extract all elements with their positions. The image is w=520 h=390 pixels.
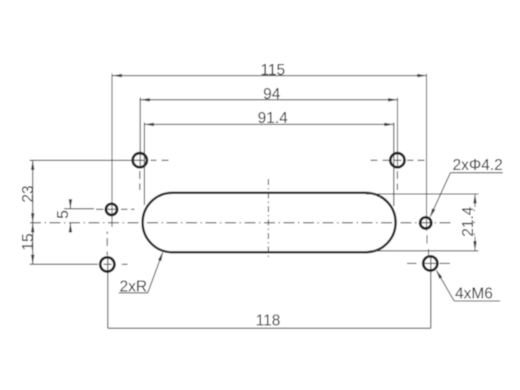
hole M6 bottom-right bbox=[423, 256, 437, 270]
svg-text:91.4: 91.4 bbox=[258, 110, 289, 127]
hole M6 bottom-left centerline dashes bbox=[104, 263, 112, 265]
svg-text:21.4: 21.4 bbox=[460, 206, 477, 237]
hole 4.2 right bbox=[420, 217, 431, 228]
svg-text:23: 23 bbox=[20, 185, 37, 202]
extension line 15 bottom bbox=[30, 263, 98, 265]
svg-text:4xM6: 4xM6 bbox=[455, 286, 493, 303]
dimension 91.4 bbox=[144, 123, 393, 125]
obround cutout 91.4 x 21.4 bbox=[143, 193, 396, 253]
hole M6 top-left bbox=[133, 153, 147, 167]
extension line 118 left bbox=[107, 256, 109, 328]
hole M6 top-left centerline dashes bbox=[134, 159, 144, 161]
hole M6 bottom-right centerline dashes bbox=[407, 262, 417, 264]
hole M6 top-right centerline dashes bbox=[371, 159, 378, 161]
extension line 91.4 left bbox=[143, 123, 145, 206]
dimension 5 bbox=[69, 200, 71, 209]
extension line 91.4 right bbox=[393, 123, 395, 207]
svg-text:118: 118 bbox=[256, 312, 281, 329]
hole 4.2 left centerline dashes bbox=[96, 208, 103, 210]
extension line 115 right bbox=[426, 74, 428, 231]
extension line 94 right bbox=[397, 98, 399, 168]
svg-text:5: 5 bbox=[55, 210, 72, 219]
svg-text:94: 94 bbox=[263, 86, 281, 103]
dimension 118 bbox=[108, 327, 431, 329]
dimension 15 bbox=[32, 223, 34, 264]
extension line 21.4 bottom bbox=[370, 250, 479, 252]
extension line 118 right bbox=[430, 255, 432, 328]
svg-text:2xΦ4.2: 2xΦ4.2 bbox=[453, 157, 503, 174]
vertical centerline of obround bbox=[267, 179, 269, 258]
hole M6 bottom-left bbox=[100, 257, 114, 271]
svg-text:15: 15 bbox=[20, 233, 37, 250]
dimension 115 bbox=[112, 75, 426, 77]
extension line 115 left bbox=[111, 74, 113, 227]
extension line 23 top bbox=[30, 159, 132, 161]
dimension 94 bbox=[140, 99, 397, 101]
extension line 21.4 top bbox=[366, 193, 479, 195]
hole 4.2 left bbox=[106, 204, 117, 215]
dimension 21.4 bbox=[474, 194, 476, 207]
horizontal main centerline bbox=[30, 222, 453, 224]
hole M6 top-right bbox=[390, 153, 404, 167]
svg-text:115: 115 bbox=[260, 62, 285, 79]
dimension 23 bbox=[32, 160, 34, 222]
extension line 94 left bbox=[139, 98, 141, 168]
